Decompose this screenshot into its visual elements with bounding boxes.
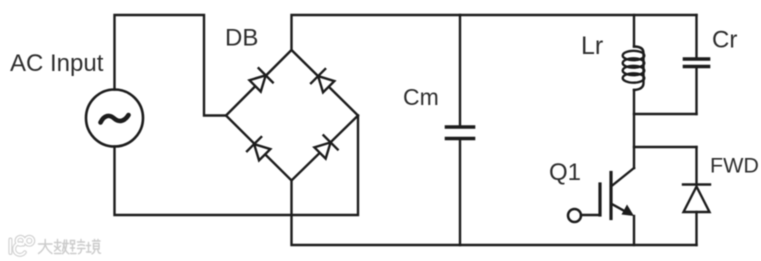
wire: AC source bottom to bridge right corner [115,116,359,216]
capacitor Cm [447,125,474,129]
wire: Lr bottom to Q1 collector node [633,90,635,168]
AC source V1 [86,90,143,147]
wire: FWD lower lead [695,212,697,245]
wire: bridge bottom corner to DC- bottom rail [292,181,697,246]
diode D1 (top-left edge, pointing to top corner) [248,68,273,93]
inductor Lr [634,47,644,91]
wire: Lr branch upper [633,15,635,47]
svg-text:FWD: FWD [710,154,759,178]
svg-text:DB: DB [225,25,258,52]
svg-text:Cr: Cr [712,27,737,54]
diode bridge DB diamond [226,50,358,181]
watermark char 跨 [71,240,86,254]
svg-text:Cm: Cm [403,84,439,110]
wire: FWD upper lead [695,147,697,185]
watermark logo [10,237,100,255]
svg-text:Lr: Lr [581,32,603,60]
wire: Q1 emitter drop [633,216,635,245]
svg-text:Q1: Q1 [549,159,581,186]
diode D2 (top-right edge, pointing to top corner) [311,69,336,94]
svg-text:AC Input: AC Input [10,50,104,77]
wire: Lr/Cr link [634,113,697,115]
diode D4 (bottom-right edge, pointing to right corner) [313,135,338,160]
Q1 gate terminal circle [568,209,581,222]
capacitor Cr [685,57,709,61]
wire: Cr branch lower [695,69,697,115]
Q1 body bar [609,173,612,219]
watermark char 大 [39,240,53,254]
diode FWD [683,183,710,185]
wire: FWD branch from collector node [634,146,697,148]
wire: bridge top corner to DC+ top rail [292,15,697,50]
wire: Cr branch upper [695,15,697,57]
wire: AC source top to top-left corner loop [115,15,227,116]
Q1 gate bar [598,184,601,215]
watermark char 数 [55,240,69,254]
watermark char 境 [87,240,101,254]
Q1 collector angled lead [611,168,634,187]
diode D3 (bottom-left edge, pointing to left corner) [247,137,272,162]
Q1 emitter angled lead with arrow [611,204,628,214]
wire: Cm branch lower [459,141,461,246]
Q1 gate lead [581,214,600,216]
wire: Cm branch upper [459,15,461,125]
